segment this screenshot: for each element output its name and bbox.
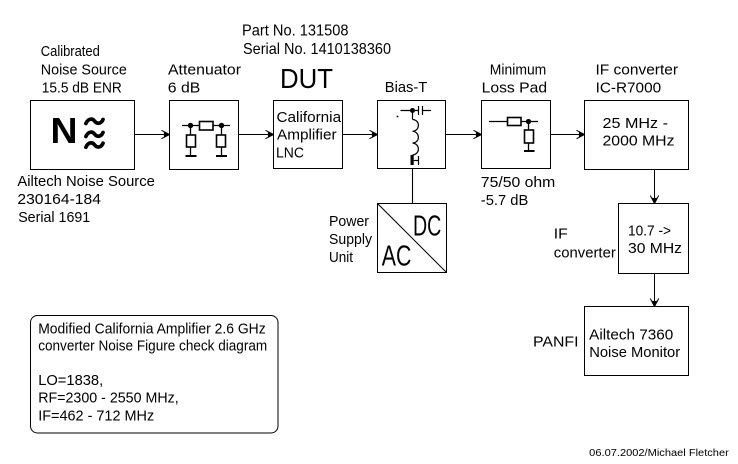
second converter box 10.7 -> 30 MHz <box>619 204 689 274</box>
power supply diagonal <box>378 204 447 273</box>
svg-text:75/50 ohm: 75/50 ohm <box>481 174 556 191</box>
DUT box text <box>276 109 342 162</box>
svg-text:AC: AC <box>382 241 412 273</box>
stray dot <box>397 116 399 118</box>
note box <box>31 316 279 434</box>
svg-text:Ailtech 7360: Ailtech 7360 <box>589 326 673 343</box>
svg-text:Attenuator: Attenuator <box>168 62 241 79</box>
arrow minimum loss pad to IF converter <box>551 130 585 138</box>
arrow attenuator to DUT <box>239 130 274 138</box>
svg-text:Bias-T: Bias-T <box>385 79 428 96</box>
arrow noise source to attenuator <box>135 130 170 138</box>
svg-text:Ailtech Noise Source: Ailtech Noise Source <box>17 173 155 190</box>
noise monitor box <box>585 307 689 376</box>
wire Bias-T to power supply <box>412 169 414 204</box>
svg-text:10.7 ->: 10.7 -> <box>628 222 671 239</box>
Bias-T box <box>378 101 446 169</box>
svg-text:IC-R7000: IC-R7000 <box>596 80 662 97</box>
label: Minimum Loss Pad <box>482 62 547 97</box>
svg-text:Noise Source: Noise Source <box>41 62 127 79</box>
noise monitor box text <box>589 326 680 361</box>
attenuator box <box>170 101 239 170</box>
svg-text:15.5 dB ENR: 15.5 dB ENR <box>42 80 122 97</box>
svg-text:Minimum: Minimum <box>490 62 547 79</box>
arrow Bias-T to minimum loss pad <box>446 130 482 138</box>
power supply unit box <box>378 204 447 273</box>
second converter box text <box>628 222 682 257</box>
minimum loss pad symbol <box>489 118 538 152</box>
svg-text:6 dB: 6 dB <box>168 80 201 97</box>
label: 75/50 ohm -5.7 dB <box>481 174 556 209</box>
IF converter box <box>585 101 689 170</box>
note box text <box>38 321 267 425</box>
svg-text:PANFI: PANFI <box>533 334 579 351</box>
svg-text:Unit: Unit <box>329 249 354 266</box>
svg-text:DUT: DUT <box>280 63 333 94</box>
svg-text:Noise Monitor: Noise Monitor <box>589 344 680 361</box>
svg-text:06.07.2002/Michael Fletcher: 06.07.2002/Michael Fletcher <box>589 448 729 459</box>
label: Power Supply Unit <box>329 213 372 266</box>
label: Ailtech Noise Source 230164-184 Serial 1691 <box>17 173 155 226</box>
svg-text:LNC: LNC <box>276 145 304 162</box>
arrow second converter down to noise monitor <box>650 274 658 307</box>
svg-text:converter Noise Figure check d: converter Noise Figure check diagram <box>38 338 267 355</box>
svg-text:2000 MHz: 2000 MHz <box>603 133 675 150</box>
svg-text:25 MHz -: 25 MHz - <box>603 115 669 132</box>
svg-text:converter: converter <box>554 244 616 261</box>
svg-text:Supply: Supply <box>329 231 372 248</box>
label: Calibrated Noise Source 15.5 dB ENR <box>41 43 127 97</box>
svg-text:Serial No. 1410138360: Serial No. 1410138360 <box>243 41 391 58</box>
svg-text:-5.7 dB: -5.7 dB <box>481 192 529 209</box>
noise source symbol waves <box>86 119 103 147</box>
svg-text:Part No. 131508: Part No. 131508 <box>242 23 349 40</box>
DUT box <box>274 101 343 169</box>
svg-text:LO=1838,: LO=1838, <box>38 372 103 389</box>
svg-text:Serial 1691: Serial 1691 <box>18 209 90 226</box>
noise source box <box>31 101 135 170</box>
svg-text:30 MHz: 30 MHz <box>628 240 682 257</box>
svg-text:IF converter: IF converter <box>596 62 679 79</box>
arrow DUT to Bias-T <box>343 130 378 138</box>
label: IF converter IC-R7000 <box>596 62 679 97</box>
attenuator pi-pad symbol <box>182 122 230 157</box>
IF converter box text <box>603 115 675 150</box>
minimum loss pad box <box>482 101 551 169</box>
label: Attenuator 6 dB <box>168 62 241 97</box>
label: IF converter (left of second box) <box>554 226 616 262</box>
svg-text:Power: Power <box>329 213 369 230</box>
Bias-T internal symbol <box>401 106 432 165</box>
svg-text:California: California <box>277 109 342 126</box>
svg-text:DC: DC <box>413 211 441 243</box>
svg-text:IF: IF <box>554 226 568 243</box>
svg-text:230164-184: 230164-184 <box>17 191 101 208</box>
svg-text:Loss Pad: Loss Pad <box>482 80 547 97</box>
arrow IF converter down to second converter <box>650 170 658 204</box>
svg-text:RF=2300 - 2550 MHz,: RF=2300 - 2550 MHz, <box>38 390 179 407</box>
svg-text:Amplifier: Amplifier <box>277 127 337 144</box>
svg-text:Modified California Amplifier: Modified California Amplifier 2.6 GHz <box>38 321 266 338</box>
svg-text:N: N <box>51 110 78 151</box>
svg-text:IF=462 - 712 MHz: IF=462 - 712 MHz <box>38 408 154 425</box>
svg-text:Calibrated: Calibrated <box>41 43 100 60</box>
